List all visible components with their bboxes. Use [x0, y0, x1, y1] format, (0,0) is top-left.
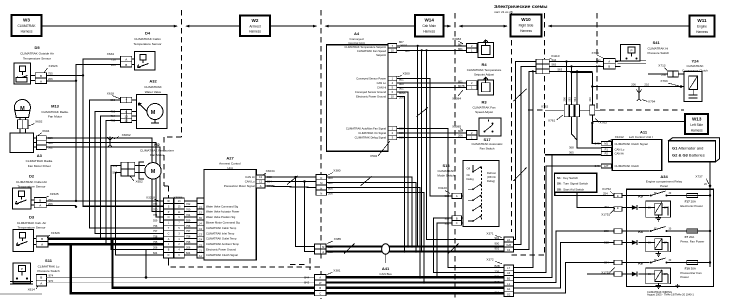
A27 left pin cells — [197, 198, 204, 258]
svg-text:CLIMATRAK Automatic: CLIMATRAK Automatic — [472, 142, 503, 146]
harness boundary dashed line W3/W2 — [164, 10, 182, 260]
svg-text:B: B — [456, 216, 458, 220]
svg-text:Harness: Harness — [520, 29, 532, 33]
svg-text:G1: G1 — [507, 287, 511, 291]
harness W13 — [685, 114, 708, 134]
svg-text:X1752: X1752 — [602, 187, 611, 191]
svg-text:X634: X634 — [107, 52, 115, 56]
svg-text:X3218: X3218 — [146, 195, 155, 199]
svg-text:CLIMATRAK Radia.: CLIMATRAK Radia. — [26, 159, 53, 163]
wire A32 556 — [90, 100, 164, 228]
svg-text:758: 758 — [153, 235, 158, 239]
wire X371 row3 up to X1110 row3 — [513, 71, 536, 249]
wire D3 206 thick — [48, 243, 164, 245]
svg-text:CAN Hi: CAN Hi — [615, 152, 625, 156]
svg-text:824: 824 — [153, 251, 158, 255]
crossing slash bus right — [448, 244, 459, 254]
svg-text:X3083: X3083 — [452, 37, 461, 41]
connector X3120 — [438, 186, 463, 225]
svg-text:A3: A3 — [507, 271, 511, 275]
connector X652 — [113, 162, 145, 183]
wire CAN Hi drop to X385 — [296, 177, 315, 246]
harness boundary dashed corner bottom-left — [169, 260, 323, 267]
clutch Y24 CLIMATRAK Compressor Clutch — [682, 59, 708, 102]
wire A11 P2 thick — [545, 154, 601, 156]
wire X371 row1 up to X1110 — [513, 62, 536, 240]
harness boundary dashed bridge under X371 — [512, 254, 545, 256]
svg-text:CLIMATRAK Radia.: CLIMATRAK Radia. — [41, 110, 68, 114]
node D5 ground join — [75, 80, 77, 82]
svg-text:Temperature Sensor: Temperature Sensor — [133, 42, 161, 46]
wire drop to S11 node — [145, 250, 147, 278]
svg-text:824: 824 — [186, 251, 191, 255]
svg-text:CLIMATRAK: CLIMATRAK — [17, 24, 36, 28]
svg-text:A: A — [40, 79, 42, 83]
crossing slash verticals — [417, 108, 429, 117]
svg-text:A: A — [125, 57, 127, 61]
wire S18 B to X372 r2 — [434, 218, 504, 272]
wire CAN bus thick pair — [326, 245, 504, 247]
svg-text:S8 : Start Aid Switch: S8 : Start Aid Switch — [557, 187, 585, 191]
svg-text:368: 368 — [495, 285, 500, 289]
svg-text:760: 760 — [153, 208, 158, 212]
svg-text:Harness: Harness — [691, 129, 703, 133]
svg-text:B: B — [319, 286, 321, 290]
relay panel A34 Engine compartment Relay Panel — [627, 174, 714, 287]
svg-text:Left Control Unit I: Left Control Unit I — [629, 135, 653, 139]
svg-text:W14: W14 — [424, 18, 434, 23]
svg-text:W10: W10 — [521, 17, 531, 22]
svg-text:210: 210 — [588, 97, 592, 102]
wire heavy drop to X381 r4 — [71, 244, 315, 293]
svg-text:808: 808 — [458, 129, 463, 133]
svg-text:W11: W11 — [697, 18, 707, 23]
svg-text:CLIMATRAK On Signal: CLIMATRAK On Signal — [358, 131, 386, 135]
svg-text:G1 Alternator and: G1 Alternator and — [672, 145, 703, 150]
svg-text:764: 764 — [153, 213, 158, 217]
svg-text:G2 & G3 Batteries: G2 & G3 Batteries — [672, 153, 705, 158]
wire D2 757 — [46, 200, 76, 202]
svg-text:CLIMATRAK Hi: CLIMATRAK Hi — [648, 46, 669, 50]
wire A32 764 — [101, 116, 121, 239]
wire heavy drop to X381 r3 — [113, 239, 315, 288]
connector stack cells left column — [164, 198, 174, 258]
svg-text:755: 755 — [186, 240, 191, 244]
valve motor A32 CLIMATRAK Water Valve — [136, 79, 167, 129]
svg-text:Conveyed Sensor Power: Conveyed Sensor Power — [356, 77, 386, 81]
potentiometer R4 CLIMATRAK Temperature Setpoint Adjust — [467, 40, 502, 77]
svg-text:544: 544 — [573, 97, 577, 102]
svg-text:368: 368 — [569, 145, 574, 149]
svg-text:206: 206 — [631, 82, 636, 86]
control unit A11 Left Control Unit — [607, 130, 662, 171]
svg-text:C3: C3 — [199, 232, 203, 236]
svg-text:Defog): Defog) — [487, 179, 495, 183]
svg-text:801: 801 — [405, 49, 410, 53]
svg-text:760: 760 — [186, 208, 191, 212]
connector X385 — [315, 237, 342, 254]
svg-text:X3085: X3085 — [452, 125, 461, 129]
svg-text:B28: B28 — [604, 241, 609, 245]
svg-text:B: B — [125, 63, 127, 67]
harness boundary dashed line W14/W10 — [454, 13, 456, 299]
wire X380 row1 right — [327, 177, 413, 246]
svg-text:C2: C2 — [199, 227, 203, 231]
wire to Y24 lower — [592, 86, 684, 88]
wire X500 sensor power to S18 — [397, 79, 452, 196]
wire D2 206 — [46, 204, 76, 206]
svg-text:Pressurizer Motor Signal: Pressurizer Motor Signal — [224, 184, 255, 188]
svg-text:X1523: X1523 — [49, 64, 58, 68]
shield drain X794 — [636, 87, 655, 104]
svg-text:Fan Motor: Fan Motor — [48, 115, 62, 119]
svg-text:CLIMATRAK Fan Speed: CLIMATRAK Fan Speed — [357, 49, 387, 53]
wire D5 206 — [47, 80, 76, 82]
svg-text:R4: R4 — [481, 62, 487, 67]
svg-text:CLIMATRAK Clutch: CLIMATRAK Clutch — [615, 164, 640, 168]
crossing slash bus left — [344, 244, 355, 254]
svg-text:Speed Adjust: Speed Adjust — [475, 110, 493, 114]
svg-text:X3084: X3084 — [452, 97, 461, 101]
diode K3 — [622, 240, 637, 245]
svg-text:563: 563 — [568, 97, 572, 102]
node S11 tap — [145, 276, 148, 279]
A11 pin cells — [569, 141, 611, 168]
svg-text:B2: B2 — [507, 277, 511, 281]
svg-text:B43: B43 — [304, 281, 309, 285]
svg-text:X794: X794 — [648, 100, 656, 104]
wire bottom left stub — [0, 293, 42, 295]
svg-text:S1 : Key Switch: S1 : Key Switch — [557, 176, 578, 180]
svg-text:Harness: Harness — [423, 30, 435, 34]
svg-text:755: 755 — [153, 240, 158, 244]
switch S17 CLIMATRAK Automatic Fan Switch — [472, 118, 503, 151]
switch S41 CLIMATRAK Hi Pressure Switch — [618, 40, 670, 63]
connector X500 — [388, 72, 410, 100]
svg-text:S41: S41 — [653, 40, 661, 45]
svg-text:P2: P2 — [605, 152, 609, 156]
svg-text:CLIMATRAK Ambient Temp: CLIMATRAK Ambient Temp — [206, 242, 239, 246]
connector X501 — [388, 40, 410, 53]
svg-text:B2B: B2B — [495, 264, 500, 268]
node CAN Hi tap — [294, 176, 296, 178]
svg-text:M1: M1 — [604, 142, 608, 146]
svg-text:(Off-On: (Off-On — [487, 175, 496, 179]
wire legend to X1751 — [577, 192, 614, 207]
svg-text:A27: A27 — [226, 156, 234, 161]
harness boundary dashed line W10 left — [511, 13, 513, 232]
svg-text:G2: G2 — [507, 292, 511, 296]
wire W3 to boundary — [42, 25, 178, 27]
svg-text:Power: Power — [680, 275, 689, 279]
connector X1525 — [31, 192, 59, 208]
svg-text:Setpoint: Setpoint — [376, 53, 386, 57]
svg-text:D4: D4 — [145, 31, 151, 36]
svg-text:X602: X602 — [35, 120, 43, 124]
svg-text:Harness: Harness — [249, 30, 261, 34]
svg-text:Setpoint Adjust: Setpoint Adjust — [474, 73, 494, 77]
svg-text:B43: B43 — [595, 141, 600, 145]
svg-text:A: A — [319, 276, 321, 280]
wire X1110 row3 to riser — [549, 70, 592, 72]
svg-text:X761: X761 — [548, 118, 556, 122]
svg-text:C4: C4 — [507, 248, 511, 252]
svg-text:757: 757 — [186, 229, 191, 233]
wire D5 755 — [47, 74, 83, 76]
svg-text:Armrest: Armrest — [249, 25, 260, 29]
svg-text:762: 762 — [153, 202, 158, 206]
connector X1523 — [30, 64, 57, 83]
svg-text:CLIMATRAK Temperature Setpoint: CLIMATRAK Temperature Setpoint — [344, 45, 386, 49]
svg-text:B: B — [39, 198, 41, 202]
svg-text:758: 758 — [186, 235, 191, 239]
connector X713 — [658, 63, 678, 77]
svg-text:Right Side: Right Side — [519, 24, 534, 28]
connector X1751 — [601, 205, 622, 217]
connector X372 — [486, 257, 513, 296]
svg-text:A: A — [41, 243, 43, 247]
relay K6 — [622, 258, 687, 288]
wire X372 row5 up to X1753b — [513, 243, 614, 288]
svg-text:W2: W2 — [252, 18, 259, 23]
svg-text:559: 559 — [153, 218, 158, 222]
svg-text:C2: C2 — [259, 180, 263, 184]
wire X761 to 592 riser — [572, 72, 593, 86]
bottom bus wires right of X381 — [326, 276, 504, 278]
svg-text:X652: X652 — [136, 180, 144, 184]
wire A32 762 — [106, 120, 121, 244]
wire X380 row2 right — [327, 182, 417, 251]
svg-text:806: 806 — [328, 186, 333, 190]
wire W2 to boundary — [270, 25, 316, 27]
svg-text:A1: A1 — [199, 254, 203, 258]
harness W10 — [511, 15, 542, 37]
control unit A4 Conveyed Control Unit — [327, 31, 389, 151]
svg-text:3+B: 3+B — [506, 243, 511, 247]
svg-text:206: 206 — [458, 134, 463, 138]
node X793 — [680, 85, 683, 88]
wire S11 974 gray — [46, 276, 314, 278]
wire X372 row1 up to X1110 wire — [513, 71, 532, 267]
connector stack X3218 / X3084 — [146, 195, 183, 201]
stack cell pin letters — [167, 200, 181, 257]
wire X502 automan down to X372 — [397, 129, 504, 268]
svg-text:Water Valve Command Sig: Water Valve Command Sig — [206, 204, 239, 208]
svg-text:N: N — [320, 192, 322, 196]
svg-text:X371: X371 — [486, 232, 494, 236]
connector X380 — [316, 169, 341, 196]
svg-text:B: B — [40, 74, 42, 78]
potentiometer R3 CLIMATRAK Fan Speed Adjust — [473, 77, 496, 114]
wire boundary to W10 — [460, 25, 507, 27]
svg-text:901: 901 — [328, 181, 333, 185]
wire A27 CAN Lo — [265, 181, 316, 183]
wire legend to X1752 — [555, 192, 614, 195]
svg-text:Engine compartment Relay: Engine compartment Relay — [646, 180, 683, 184]
fuse F7 — [680, 229, 711, 243]
sensor D4 CLIMATRAK Cabin Temperature Sensor — [133, 31, 161, 71]
svg-text:X380: X380 — [333, 169, 341, 173]
svg-text:900: 900 — [495, 241, 500, 245]
wire X371 row1 feed — [427, 50, 504, 239]
svg-text:CAN Hi: CAN Hi — [245, 175, 255, 179]
wire X500 to R3 — [397, 82, 467, 84]
connector X3085 — [452, 125, 477, 140]
svg-text:X372: X372 — [486, 257, 494, 261]
svg-text:559: 559 — [186, 218, 191, 222]
svg-text:904: 904 — [495, 236, 500, 240]
fuse F17 — [680, 194, 711, 208]
svg-text:X3120: X3120 — [438, 186, 447, 190]
svg-text:B43: B43 — [595, 164, 600, 168]
svg-text:X3062: X3062 — [122, 133, 131, 137]
svg-text:L2T: L2T — [604, 164, 609, 168]
connector X3083 — [452, 37, 477, 53]
svg-text:M: M — [151, 169, 156, 175]
svg-text:368: 368 — [304, 286, 309, 290]
wire X502 defog to S17 — [397, 136, 467, 138]
wire X704 to S41 — [615, 61, 620, 66]
svg-text:X704: X704 — [592, 51, 600, 55]
wire X380 row3 right — [327, 188, 421, 278]
svg-text:D2: D2 — [29, 174, 35, 179]
svg-text:P: P — [21, 267, 23, 271]
svg-text:O: O — [168, 216, 170, 219]
svg-text:546: 546 — [596, 64, 601, 68]
svg-text:S18: S18 — [442, 163, 450, 168]
fuse F10 — [680, 261, 711, 280]
connector X371 — [486, 232, 513, 253]
wire X500 power ground down — [397, 97, 405, 252]
svg-text:X793: X793 — [660, 79, 668, 83]
control unit A27 Armrest Control Unit — [204, 156, 256, 260]
svg-text:Cab Main: Cab Main — [422, 24, 436, 28]
node D2 ground join — [75, 206, 77, 208]
svg-text:B44: B44 — [304, 275, 309, 279]
svg-text:A11: A11 — [640, 130, 648, 135]
svg-text:CLIMATRAK Inlet Temp: CLIMATRAK Inlet Temp — [206, 231, 235, 235]
svg-text:CLIMATRAK Cabin: CLIMATRAK Cabin — [134, 37, 161, 41]
svg-text:A: A — [39, 204, 41, 208]
connector X1752 — [602, 187, 622, 198]
relay K9 — [622, 191, 687, 221]
svg-text:254: 254 — [603, 192, 608, 196]
svg-text:B13: B13 — [495, 280, 500, 284]
svg-text:Blower Motor Command Sig: Blower Motor Command Sig — [206, 221, 240, 225]
svg-text:Electronic Power Ground: Electronic Power Ground — [356, 95, 386, 99]
svg-text:W3: W3 — [23, 18, 30, 23]
diode K6 — [622, 272, 637, 277]
svg-text:938: 938 — [445, 217, 450, 221]
svg-text:CLIMATRAK Outlet Air: CLIMATRAK Outlet Air — [16, 180, 47, 184]
CAN bus node A41 — [379, 244, 392, 276]
svg-text:288: 288 — [604, 229, 609, 233]
svg-text:545: 545 — [596, 59, 601, 63]
svg-text:807: 807 — [458, 43, 463, 47]
svg-text:X737: X737 — [695, 175, 703, 179]
svg-text:X1525: X1525 — [50, 192, 59, 196]
svg-text:A: A — [322, 250, 324, 254]
wire W14 to boundary — [444, 25, 451, 27]
svg-text:206: 206 — [563, 97, 567, 102]
svg-text:A32: A32 — [149, 79, 157, 84]
svg-text:B: B — [41, 237, 43, 241]
harness boundary dashed line W10 right — [544, 13, 546, 255]
svg-text:A: A — [456, 194, 458, 198]
svg-text:S6 : Turn Signal Switch: S6 : Turn Signal Switch — [557, 182, 588, 186]
harness W3 — [12, 15, 42, 36]
wire X761 riser to A11 P1 — [577, 117, 601, 149]
svg-text:M: M — [320, 181, 322, 185]
wire X380 row4 right — [327, 193, 425, 283]
connector X763 — [590, 85, 607, 124]
wire X1110 row1 to S41 — [549, 61, 618, 63]
svg-text:A4: A4 — [354, 31, 360, 36]
wire W10 to W11 — [549, 25, 690, 27]
svg-text:A: A — [608, 59, 610, 63]
wire X372 row4 up to X1753a — [513, 231, 614, 283]
wire D3 758 thick — [48, 237, 164, 239]
label X737 — [695, 175, 711, 188]
switch S11 CLIMATRAK Lo Pressure Switch — [10, 258, 60, 284]
svg-text:931: 931 — [445, 221, 450, 225]
diode K9 — [622, 205, 637, 210]
wires stack to A27 pins — [184, 201, 197, 255]
svg-text:CLIMATRAK: CLIMATRAK — [144, 85, 162, 89]
wire G1 down to fuse column — [709, 162, 711, 267]
svg-text:206: 206 — [153, 245, 158, 249]
svg-text:A3: A3 — [37, 153, 43, 158]
connector X704 — [592, 51, 616, 69]
svg-text:M2: M2 — [154, 142, 160, 147]
svg-text:Harness: Harness — [21, 30, 33, 34]
svg-text:X1526: X1526 — [51, 231, 60, 235]
svg-text:R3: R3 — [481, 100, 487, 105]
harness boundary dashed near X381 — [290, 258, 321, 299]
svg-text:X3034: X3034 — [266, 169, 275, 173]
svg-text:210: 210 — [644, 82, 649, 86]
legend box S1 S6 S8 — [555, 173, 597, 192]
svg-text:CLIMATRAK Cab. Air: CLIMATRAK Cab. Air — [17, 221, 46, 225]
svg-text:X713: X713 — [658, 63, 666, 67]
svg-text:968: 968 — [445, 194, 450, 198]
svg-text:C4: C4 — [199, 238, 203, 242]
svg-text:D: D — [320, 176, 322, 180]
svg-text:801: 801 — [458, 47, 463, 51]
svg-text:B: B — [608, 65, 610, 69]
wire X372 row2 up to A11 L2T — [513, 166, 601, 273]
switch S18 CLIMATRAK Mode Switch — [437, 160, 498, 226]
wire boundary to W2 — [187, 25, 241, 27]
svg-text:Harness: Harness — [696, 30, 708, 34]
svg-text:Water Valve Position Sig: Water Valve Position Sig — [206, 215, 236, 219]
svg-text:Armrest Control: Armrest Control — [219, 162, 241, 166]
svg-text:084: 084 — [604, 261, 609, 265]
sensor D2 CLIMATRAK Outlet Air Temperature Sensor — [13, 174, 47, 209]
svg-text:X1012: X1012 — [615, 135, 624, 139]
shield drain X3062 — [107, 133, 131, 147]
wire X501 to R4 — [397, 45, 467, 47]
harness W2 — [240, 16, 270, 37]
svg-text:X385: X385 — [334, 237, 342, 241]
connector X3034 A27 right pins — [256, 169, 275, 188]
svg-text:M: M — [322, 245, 324, 249]
svg-text:Engine: Engine — [697, 25, 707, 29]
connector X381 — [304, 268, 341, 295]
wire to W13 — [592, 121, 685, 123]
connector X1110 — [536, 54, 563, 74]
svg-text:Electronic Power: Electronic Power — [680, 204, 703, 208]
